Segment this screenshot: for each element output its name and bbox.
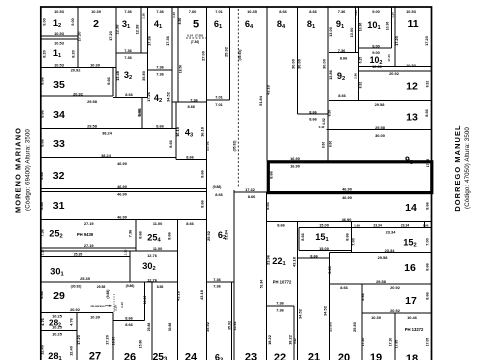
svg-text:17.36: 17.36 bbox=[165, 35, 170, 46]
svg-text:9.00: 9.00 bbox=[372, 44, 380, 49]
wire lot35 right edge bbox=[112, 68, 114, 97]
svg-text:8.66: 8.66 bbox=[360, 292, 365, 300]
svg-text:16.90: 16.90 bbox=[290, 163, 300, 168]
svg-text:25.88: 25.88 bbox=[147, 323, 151, 332]
svg-text:25.92: 25.92 bbox=[206, 230, 211, 241]
svg-text:21: 21 bbox=[308, 352, 320, 360]
wire lot24 left edge bbox=[177, 219, 179, 360]
svg-text:(9.88): (9.88) bbox=[213, 185, 222, 189]
wire lot16 bottom bbox=[330, 283, 432, 285]
wire lot30 bottom bbox=[41, 281, 178, 283]
svg-text:25.80: 25.80 bbox=[328, 322, 333, 332]
svg-text:17.20: 17.20 bbox=[76, 335, 81, 345]
svg-text:7.01: 7.01 bbox=[215, 9, 223, 14]
svg-text:8.92: 8.92 bbox=[426, 81, 430, 88]
svg-text:10.39: 10.39 bbox=[90, 63, 101, 68]
wire lot4-3 left edge bbox=[175, 102, 177, 160]
svg-text:43.18: 43.18 bbox=[175, 290, 180, 301]
wire lot34 bottom bbox=[41, 128, 176, 130]
svg-text:2: 2 bbox=[93, 18, 99, 30]
svg-text:7.36: 7.36 bbox=[124, 55, 132, 60]
wire lot10-1 bottom bbox=[359, 47, 392, 49]
svg-text:7.36: 7.36 bbox=[276, 301, 284, 306]
svg-text:1.30: 1.30 bbox=[172, 12, 176, 18]
svg-text:8.66: 8.66 bbox=[425, 291, 430, 299]
svg-text:7.36: 7.36 bbox=[190, 98, 198, 103]
wire lot5/6 long boundary bbox=[206, 7, 208, 360]
wire lot15-2 left edge bbox=[351, 222, 353, 253]
svg-text:8.66: 8.66 bbox=[329, 141, 333, 147]
svg-text:24: 24 bbox=[185, 352, 198, 360]
wire lot8-4 left edge bbox=[266, 7, 268, 161]
wire lot9/10 boundary bbox=[358, 7, 360, 101]
svg-text:10.35: 10.35 bbox=[247, 9, 258, 14]
svg-text:8.66: 8.66 bbox=[327, 265, 332, 273]
svg-text:7.36: 7.36 bbox=[213, 277, 221, 282]
svg-text:20.92: 20.92 bbox=[73, 92, 84, 97]
svg-text:2.30: 2.30 bbox=[114, 305, 118, 311]
svg-text:33: 33 bbox=[53, 138, 65, 150]
svg-text:10.53: 10.53 bbox=[54, 63, 65, 68]
svg-text:8.66: 8.66 bbox=[265, 201, 270, 209]
wire lot15-1 bottom bbox=[299, 250, 352, 252]
wire lot29 bottom bbox=[41, 312, 113, 314]
svg-text:1.10: 1.10 bbox=[120, 302, 124, 308]
svg-text:27: 27 bbox=[89, 351, 101, 360]
wire lot18/19 boundary bbox=[394, 313, 396, 360]
svg-text:8.66: 8.66 bbox=[248, 194, 256, 199]
svg-text:8.66: 8.66 bbox=[166, 231, 171, 239]
svg-text:23: 23 bbox=[245, 352, 257, 360]
svg-text:30.00: 30.00 bbox=[322, 59, 327, 69]
wire lot6-2 bottom bbox=[207, 281, 234, 283]
svg-text:(Código: 69400) Altura: 3500: (Código: 69400) Altura: 3500 bbox=[25, 129, 32, 211]
svg-text:17.85: 17.85 bbox=[395, 340, 399, 349]
svg-text:8.66: 8.66 bbox=[125, 315, 133, 320]
svg-text:10.53: 10.53 bbox=[54, 9, 65, 14]
svg-text:8.66: 8.66 bbox=[277, 223, 285, 228]
svg-text:8.66: 8.66 bbox=[186, 155, 194, 160]
wire lot6-3 right edge inner bbox=[231, 282, 233, 360]
svg-text:17.36: 17.36 bbox=[147, 35, 152, 46]
svg-text:26: 26 bbox=[124, 352, 136, 360]
svg-text:0.42: 0.42 bbox=[319, 125, 325, 129]
svg-text:8.66: 8.66 bbox=[310, 254, 318, 259]
svg-text:20.92: 20.92 bbox=[389, 71, 400, 76]
svg-text:10.46: 10.46 bbox=[407, 315, 418, 320]
svg-text:8.66: 8.66 bbox=[106, 76, 111, 84]
svg-text:7.36: 7.36 bbox=[338, 48, 346, 53]
svg-text:7.01: 7.01 bbox=[215, 102, 223, 107]
svg-text:27.19: 27.19 bbox=[84, 221, 95, 226]
lot 5 internal dashed split bbox=[186, 37, 207, 39]
svg-text:17: 17 bbox=[405, 295, 417, 307]
svg-text:10.36: 10.36 bbox=[386, 22, 390, 31]
wire lot22/23 boundary bbox=[266, 193, 268, 360]
svg-text:35: 35 bbox=[53, 79, 65, 91]
wire lot35 bottom bbox=[41, 95, 113, 97]
wire sliver in lot26 bbox=[144, 282, 146, 321]
wire lot3-1 bottom bbox=[116, 52, 148, 54]
svg-text:17.26: 17.26 bbox=[146, 91, 151, 102]
svg-text:17.20: 17.20 bbox=[394, 36, 399, 46]
wire lot12 top bbox=[359, 70, 432, 72]
svg-text:8.66: 8.66 bbox=[309, 9, 317, 14]
svg-text:8.66: 8.66 bbox=[425, 201, 430, 209]
svg-text:38.24: 38.24 bbox=[101, 153, 112, 158]
svg-text:sin acceso: sin acceso bbox=[90, 304, 105, 308]
svg-text:DORREGO MANUEL: DORREGO MANUEL bbox=[453, 124, 462, 211]
wire lot1-2 bottom bbox=[41, 35, 78, 37]
svg-text:10.39: 10.39 bbox=[371, 315, 382, 320]
svg-text:8.66: 8.66 bbox=[137, 108, 142, 116]
svg-text:13: 13 bbox=[406, 112, 418, 124]
svg-text:(9.88): (9.88) bbox=[106, 290, 110, 299]
svg-text:12.40: 12.40 bbox=[40, 345, 45, 355]
svg-text:35.92: 35.92 bbox=[233, 322, 237, 331]
mid-block dividing dashed line bbox=[237, 9, 239, 188]
wire lot32 bottom bbox=[41, 188, 207, 190]
svg-text:8.66: 8.66 bbox=[40, 109, 45, 117]
wire lot25-3 left edge bbox=[151, 282, 153, 360]
wire sliver right of 3 bbox=[147, 7, 149, 98]
svg-text:43.18: 43.18 bbox=[266, 84, 271, 95]
svg-text:43.18: 43.18 bbox=[199, 289, 204, 300]
svg-text:13.00: 13.00 bbox=[328, 27, 333, 37]
wire lot6-2 right edge bbox=[233, 190, 235, 360]
svg-text:16.90: 16.90 bbox=[290, 156, 300, 161]
wire lot5 left edge bbox=[177, 7, 179, 102]
svg-text:16.00: 16.00 bbox=[112, 337, 116, 346]
svg-text:17.20: 17.20 bbox=[424, 36, 429, 46]
svg-text:31: 31 bbox=[53, 200, 65, 212]
wire lot1-1 top bbox=[41, 38, 78, 40]
svg-text:16: 16 bbox=[404, 262, 416, 274]
svg-text:29.58: 29.58 bbox=[375, 102, 386, 107]
svg-text:10.53: 10.53 bbox=[54, 41, 65, 46]
wire lot8-4/8-1 boundary bbox=[297, 7, 299, 114]
svg-text:7.60: 7.60 bbox=[189, 9, 197, 14]
svg-text:20.92: 20.92 bbox=[70, 307, 81, 312]
svg-text:30.00: 30.00 bbox=[291, 59, 296, 69]
svg-text:1.10: 1.10 bbox=[40, 249, 44, 255]
svg-text:12.76: 12.76 bbox=[147, 253, 158, 258]
wire lot17/20 boundary bbox=[361, 284, 363, 360]
svg-text:18.22: 18.22 bbox=[267, 334, 272, 345]
svg-text:8.66: 8.66 bbox=[309, 109, 317, 114]
svg-text:29: 29 bbox=[53, 290, 65, 302]
svg-text:7.01: 7.01 bbox=[215, 95, 223, 100]
svg-text:(30.92): (30.92) bbox=[71, 284, 82, 288]
svg-text:10.53: 10.53 bbox=[406, 9, 417, 14]
svg-text:7.36: 7.36 bbox=[338, 9, 346, 14]
wire lot8-1 bottom bbox=[298, 113, 329, 115]
wire lot9-1 right edge bbox=[355, 7, 357, 53]
wire lot28-2 bottom bbox=[41, 330, 77, 332]
svg-text:14: 14 bbox=[405, 202, 417, 214]
svg-text:8.66: 8.66 bbox=[340, 285, 348, 290]
wire lot30 top bbox=[41, 256, 130, 258]
wire lot25-2 bottom bbox=[41, 247, 136, 249]
svg-text:34: 34 bbox=[53, 109, 65, 121]
svg-text:10.39: 10.39 bbox=[91, 9, 102, 14]
svg-text:8.20: 8.20 bbox=[71, 50, 76, 58]
svg-text:8.66: 8.66 bbox=[188, 104, 196, 109]
svg-text:18: 18 bbox=[406, 353, 418, 360]
svg-text:35.92: 35.92 bbox=[205, 321, 210, 332]
svg-text:8.66: 8.66 bbox=[125, 322, 133, 327]
svg-text:30.00: 30.00 bbox=[297, 59, 302, 69]
svg-text:20.92: 20.92 bbox=[71, 68, 82, 73]
wire lot30-2 left edge bbox=[129, 251, 131, 282]
wire sliver lot15-2 bbox=[424, 222, 426, 228]
wire lot34 right edge bbox=[141, 98, 143, 129]
wire lot9-1 bottom bbox=[329, 52, 359, 54]
svg-text:6.25: 6.25 bbox=[359, 57, 363, 64]
svg-text:30.88: 30.88 bbox=[168, 323, 172, 332]
svg-text:17.20: 17.20 bbox=[108, 31, 113, 41]
svg-text:8.66: 8.66 bbox=[279, 9, 287, 14]
svg-text:17.20: 17.20 bbox=[77, 32, 82, 42]
wire band line bbox=[41, 250, 178, 252]
wire lot6-1 right edge bbox=[229, 7, 231, 100]
svg-text:4.76: 4.76 bbox=[69, 317, 74, 325]
svg-text:8.66: 8.66 bbox=[300, 232, 305, 240]
svg-text:7.00: 7.00 bbox=[351, 238, 356, 246]
svg-text:8.66: 8.66 bbox=[215, 192, 223, 197]
wire lot31 top bbox=[41, 191, 207, 193]
wire lot14 bottom bbox=[267, 221, 432, 223]
svg-text:9.00: 9.00 bbox=[70, 18, 75, 26]
wire lot25-4 left edge bbox=[135, 219, 137, 251]
svg-text:2.86: 2.86 bbox=[354, 73, 358, 79]
svg-text:46.90: 46.90 bbox=[117, 192, 127, 197]
svg-text:12.86: 12.86 bbox=[328, 69, 333, 80]
svg-text:8.66: 8.66 bbox=[340, 55, 348, 60]
wire lot26 top bbox=[113, 320, 145, 322]
svg-text:30.00: 30.00 bbox=[375, 133, 385, 138]
highlighted lot 9 thick rectangle bbox=[268, 162, 432, 193]
svg-text:29.58: 29.58 bbox=[376, 279, 387, 284]
wire lot4-3 bottom bbox=[176, 159, 207, 161]
svg-text:8.66: 8.66 bbox=[322, 142, 326, 148]
svg-text:25.35: 25.35 bbox=[74, 253, 83, 257]
svg-text:4.76: 4.76 bbox=[40, 317, 45, 325]
svg-text:8.66: 8.66 bbox=[39, 290, 44, 298]
svg-text:15.00: 15.00 bbox=[319, 223, 329, 228]
svg-text:10.25: 10.25 bbox=[52, 331, 63, 336]
svg-text:46.90: 46.90 bbox=[342, 187, 352, 192]
svg-text:12.38: 12.38 bbox=[115, 24, 120, 35]
svg-text:8.50: 8.50 bbox=[178, 18, 182, 25]
wire lot1/2 bottom bbox=[41, 67, 116, 69]
svg-text:17.20: 17.20 bbox=[389, 338, 393, 347]
svg-text:8.92: 8.92 bbox=[359, 82, 363, 89]
svg-text:(35.92): (35.92) bbox=[233, 141, 237, 152]
svg-text:7.36: 7.36 bbox=[124, 9, 132, 14]
svg-text:MORENO MARIANO: MORENO MARIANO bbox=[14, 127, 23, 213]
block outer boundary bbox=[41, 7, 432, 360]
wire lot26 left edge bbox=[112, 313, 114, 360]
svg-text:7.00: 7.00 bbox=[425, 238, 430, 246]
svg-text:46.90: 46.90 bbox=[117, 184, 127, 189]
svg-text:29.58: 29.58 bbox=[87, 99, 98, 104]
svg-text:20.92: 20.92 bbox=[390, 308, 401, 313]
svg-text:35.80: 35.80 bbox=[141, 71, 146, 81]
svg-text:PH 9439: PH 9439 bbox=[77, 232, 94, 237]
svg-text:23.34: 23.34 bbox=[401, 223, 410, 227]
svg-text:10.53: 10.53 bbox=[406, 63, 417, 68]
svg-text:1.36: 1.36 bbox=[141, 13, 145, 19]
wire lot11 left edge bbox=[394, 7, 396, 67]
svg-text:8.66: 8.66 bbox=[338, 93, 346, 98]
svg-text:10.53: 10.53 bbox=[54, 31, 65, 36]
svg-text:16.18: 16.18 bbox=[200, 126, 205, 137]
svg-text:25.92: 25.92 bbox=[205, 140, 210, 151]
wire lot15-1 box left bbox=[298, 228, 300, 251]
wire lot27 left edge bbox=[76, 313, 78, 360]
svg-text:12.40: 12.40 bbox=[69, 346, 74, 356]
svg-text:34.52: 34.52 bbox=[323, 305, 328, 316]
svg-text:8.66: 8.66 bbox=[40, 76, 45, 84]
svg-text:17.05: 17.05 bbox=[426, 338, 430, 347]
svg-text:35.92: 35.92 bbox=[228, 321, 232, 330]
wire lot10-1 right edge bbox=[391, 7, 393, 48]
svg-text:46.90: 46.90 bbox=[342, 217, 352, 222]
svg-text:32: 32 bbox=[53, 170, 65, 182]
svg-text:7.36: 7.36 bbox=[156, 65, 164, 70]
svg-text:15.00: 15.00 bbox=[319, 246, 329, 251]
svg-text:13.48: 13.48 bbox=[115, 70, 120, 81]
svg-text:29.58: 29.58 bbox=[375, 125, 386, 130]
svg-text:27.19: 27.19 bbox=[84, 243, 95, 248]
svg-text:46.90: 46.90 bbox=[342, 195, 352, 200]
svg-text:23.34: 23.34 bbox=[386, 230, 397, 235]
svg-text:10.86: 10.86 bbox=[143, 296, 147, 305]
svg-text:8.66: 8.66 bbox=[40, 138, 45, 146]
svg-text:9.00: 9.00 bbox=[372, 9, 380, 14]
svg-text:29.58: 29.58 bbox=[378, 255, 389, 260]
svg-text:11.00: 11.00 bbox=[153, 246, 163, 251]
svg-text:8.92: 8.92 bbox=[293, 338, 297, 344]
wire lot13 top bbox=[329, 100, 432, 102]
svg-text:8.66: 8.66 bbox=[39, 201, 44, 209]
svg-text:1.30: 1.30 bbox=[390, 12, 394, 18]
wire lot5 bottom bbox=[172, 101, 207, 103]
svg-text:12: 12 bbox=[406, 81, 418, 93]
svg-text:8.66: 8.66 bbox=[39, 171, 44, 179]
svg-text:10.36: 10.36 bbox=[359, 23, 363, 32]
wire lot20/21 boundary bbox=[329, 253, 331, 360]
svg-text:PH 10772: PH 10772 bbox=[273, 280, 292, 285]
svg-text:8.66: 8.66 bbox=[425, 262, 430, 270]
svg-text:8.66: 8.66 bbox=[125, 92, 133, 97]
wire lot8-1 right edge bbox=[327, 7, 329, 161]
wire lot22 inner sliver bbox=[293, 306, 295, 360]
wire lot2/3 boundary bbox=[115, 7, 117, 98]
wire lot23 top bbox=[234, 191, 267, 193]
wire lot4-1 bottom bbox=[148, 69, 173, 71]
svg-text:34.52: 34.52 bbox=[298, 308, 303, 319]
svg-text:1.96: 1.96 bbox=[423, 223, 429, 227]
svg-text:11.00: 11.00 bbox=[153, 221, 163, 226]
svg-text:9.00: 9.00 bbox=[42, 18, 47, 26]
svg-text:(Código: 47050) Altura: 3500: (Código: 47050) Altura: 3500 bbox=[464, 127, 471, 209]
svg-text:11: 11 bbox=[407, 18, 418, 30]
svg-text:51.84: 51.84 bbox=[258, 95, 263, 106]
wire lot4 right edge bbox=[171, 7, 173, 129]
wire lot1 right edge bbox=[77, 7, 79, 68]
wire lot13 bottom bbox=[327, 129, 432, 131]
svg-text:27.00: 27.00 bbox=[201, 51, 206, 61]
svg-text:17.35: 17.35 bbox=[426, 159, 430, 168]
svg-text:8.66: 8.66 bbox=[186, 221, 194, 226]
svg-text:19: 19 bbox=[370, 352, 382, 360]
wire lot6-1 bottom bbox=[207, 99, 230, 101]
svg-text:8.66: 8.66 bbox=[345, 232, 350, 240]
svg-text:17.20: 17.20 bbox=[361, 338, 365, 347]
svg-text:(7.50): (7.50) bbox=[195, 34, 203, 38]
svg-text:8.66: 8.66 bbox=[168, 139, 173, 147]
svg-text:10.39: 10.39 bbox=[90, 314, 101, 319]
svg-text:PH 13272: PH 13272 bbox=[405, 327, 424, 332]
svg-text:8.66: 8.66 bbox=[200, 199, 205, 207]
wire lot21 top bbox=[298, 257, 330, 259]
svg-text:17.20: 17.20 bbox=[105, 335, 110, 345]
wire lot15 top bbox=[299, 227, 432, 229]
wire lot17 bottom bbox=[362, 312, 432, 314]
svg-text:8.66: 8.66 bbox=[137, 230, 142, 238]
sin-acceso arrow bbox=[105, 305, 112, 307]
svg-text:25.35: 25.35 bbox=[80, 276, 91, 281]
svg-text:12.76: 12.76 bbox=[147, 277, 158, 282]
wire lot21/22 boundary bbox=[297, 222, 299, 360]
svg-text:23.34: 23.34 bbox=[373, 223, 382, 227]
wire lot31 bottom bbox=[41, 218, 207, 220]
wire lot3-2 bottom bbox=[113, 97, 148, 99]
svg-text:12.38: 12.38 bbox=[135, 24, 140, 35]
svg-text:1.96: 1.96 bbox=[354, 10, 358, 16]
svg-text:20: 20 bbox=[338, 352, 350, 360]
svg-text:7.36: 7.36 bbox=[128, 229, 133, 237]
svg-text:18.22: 18.22 bbox=[288, 334, 293, 345]
svg-text:23.96: 23.96 bbox=[266, 254, 271, 265]
svg-text:46.90: 46.90 bbox=[117, 215, 127, 220]
svg-text:34.52: 34.52 bbox=[166, 91, 171, 102]
svg-text:0.14: 0.14 bbox=[187, 34, 193, 38]
svg-text:17.32: 17.32 bbox=[245, 187, 256, 192]
wire lot16 top bbox=[330, 252, 432, 254]
svg-text:38.24: 38.24 bbox=[102, 131, 113, 136]
wire lot3-1 right edge bbox=[140, 7, 142, 53]
svg-text:17.20: 17.20 bbox=[387, 54, 391, 62]
svg-text:8.66: 8.66 bbox=[309, 116, 317, 121]
svg-text:23.34: 23.34 bbox=[385, 248, 396, 253]
svg-text:(35.92): (35.92) bbox=[238, 50, 242, 61]
wire lot22-1 bottom bbox=[267, 305, 295, 307]
svg-text:25.80: 25.80 bbox=[352, 322, 357, 332]
svg-text:8.66: 8.66 bbox=[328, 110, 332, 117]
svg-text:(9.86): (9.86) bbox=[126, 284, 135, 288]
svg-text:43.18: 43.18 bbox=[292, 256, 297, 267]
wire lot10-2 bottom bbox=[359, 66, 432, 68]
svg-text:18.50: 18.50 bbox=[178, 65, 182, 74]
svg-text:7.36: 7.36 bbox=[213, 284, 221, 289]
svg-text:46.90: 46.90 bbox=[117, 161, 127, 166]
svg-text:7.36: 7.36 bbox=[276, 308, 284, 313]
svg-text:51.84: 51.84 bbox=[260, 280, 264, 289]
svg-text:8.66: 8.66 bbox=[424, 108, 429, 116]
